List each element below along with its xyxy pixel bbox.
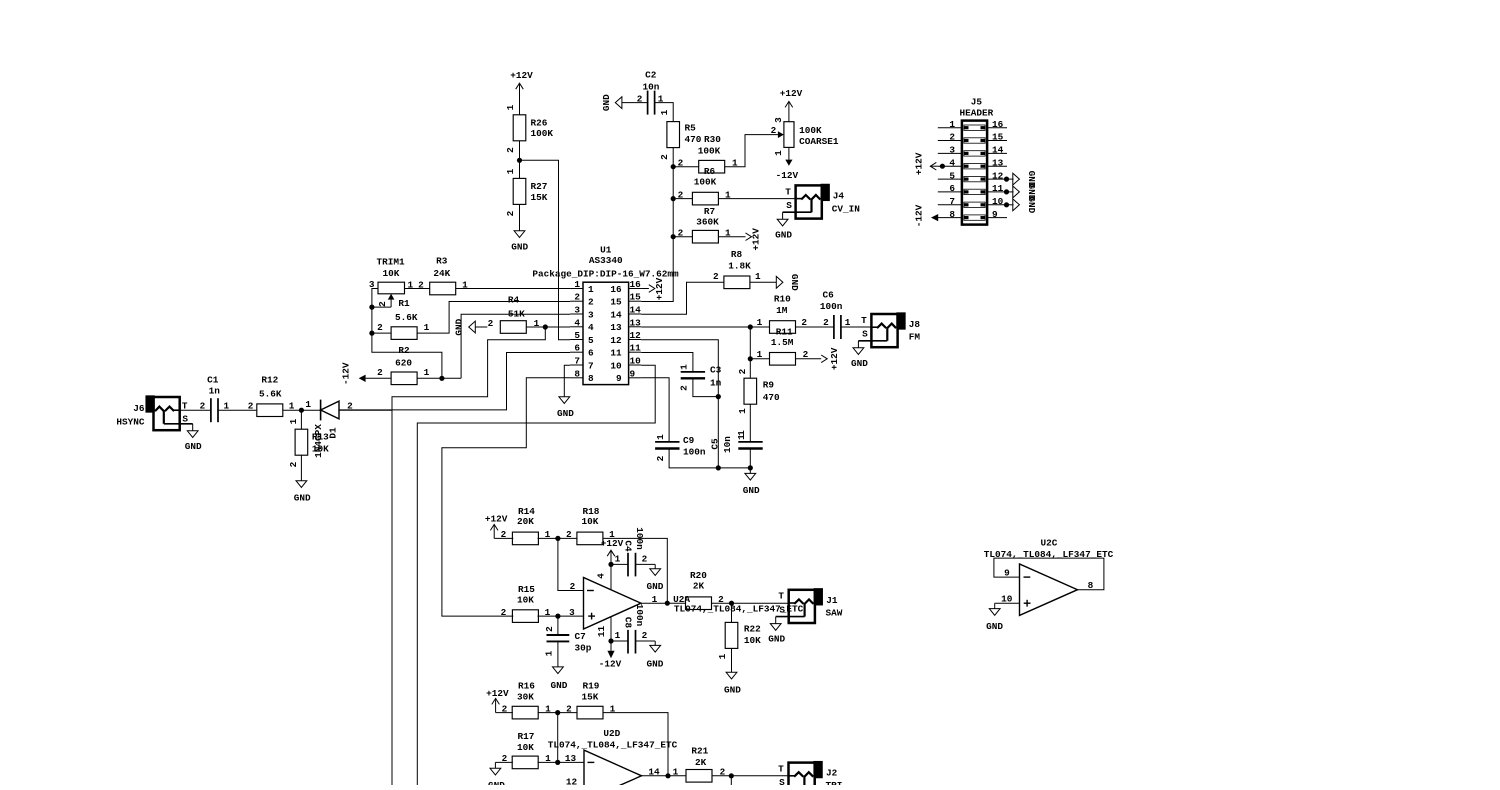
- svg-text:R21: R21: [691, 745, 708, 756]
- junction U2A output node: [665, 601, 670, 606]
- wire U2A output: [641, 594, 686, 605]
- svg-text:2: 2: [377, 367, 383, 378]
- svg-text:11: 11: [596, 626, 607, 638]
- resistor R15: [501, 584, 551, 622]
- svg-text:J2: J2: [826, 768, 838, 779]
- svg-text:TL074,_TL084,_LF347_ETC: TL074,_TL084,_LF347_ETC: [548, 740, 678, 751]
- svg-text:HEADER: HEADER: [960, 108, 994, 119]
- svg-text:GND: GND: [454, 318, 465, 335]
- svg-text:1: 1: [655, 434, 666, 440]
- svg-text:15: 15: [630, 292, 642, 303]
- svg-text:15K: 15K: [531, 192, 548, 203]
- power +12V at R16: [486, 688, 513, 714]
- connector J6 HSYNC jack: [116, 397, 202, 452]
- svg-text:GND: GND: [185, 441, 202, 452]
- svg-text:9: 9: [1004, 568, 1010, 579]
- resistor R2: [377, 345, 430, 384]
- svg-text:10: 10: [610, 360, 622, 371]
- capacitor C1: [207, 374, 229, 422]
- svg-text:5: 5: [949, 170, 955, 181]
- svg-text:10: 10: [630, 356, 642, 367]
- svg-text:1: 1: [659, 109, 670, 115]
- wire R11 pin1: [750, 358, 769, 360]
- junction C4 node: [608, 562, 613, 567]
- junction R17 node: [555, 760, 560, 765]
- wire R17 to U2D: [538, 753, 584, 764]
- resistor R10: [757, 293, 808, 333]
- wire D1 pin2: [339, 400, 392, 411]
- svg-text:6: 6: [588, 348, 594, 359]
- svg-text:10: 10: [1001, 593, 1013, 604]
- trimmer TRIM1: [369, 256, 414, 307]
- svg-text:12: 12: [566, 777, 578, 786]
- svg-text:2: 2: [637, 94, 643, 105]
- wire U1 pin11 to C3: [641, 353, 693, 372]
- svg-text:-12V: -12V: [776, 170, 799, 181]
- wire R20 to J1: [711, 602, 789, 604]
- svg-text:2: 2: [377, 322, 383, 333]
- wire U1 pin6 to D1: [339, 353, 570, 410]
- svg-text:GND: GND: [551, 680, 568, 691]
- resistor R14: [512, 506, 550, 545]
- svg-text:J4: J4: [833, 190, 845, 201]
- svg-text:2: 2: [771, 125, 777, 136]
- svg-text:2: 2: [566, 703, 572, 714]
- svg-text:R12: R12: [261, 374, 278, 385]
- svg-text:1: 1: [588, 284, 594, 295]
- svg-text:16: 16: [630, 279, 642, 290]
- wire U2C feedback loop: [994, 558, 1104, 591]
- svg-text:1.8K: 1.8K: [728, 261, 751, 272]
- svg-text:1: 1: [288, 418, 299, 424]
- svg-text:2: 2: [570, 581, 576, 592]
- wire R9 to C5: [749, 404, 751, 442]
- svg-text:9: 9: [616, 373, 622, 384]
- svg-text:1: 1: [505, 168, 516, 174]
- svg-text:R5: R5: [685, 123, 697, 134]
- wire TRIM1 pin3 route: [372, 289, 442, 379]
- power -12V below COARSE1: [776, 147, 799, 180]
- svg-text:+12V: +12V: [601, 538, 624, 549]
- svg-text:470: 470: [763, 392, 780, 403]
- svg-text:T: T: [861, 315, 867, 326]
- svg-text:2: 2: [488, 318, 494, 329]
- svg-text:1n: 1n: [710, 378, 722, 389]
- wire R6 pin2: [673, 190, 692, 201]
- svg-text:7: 7: [588, 360, 594, 371]
- svg-text:11: 11: [992, 183, 1004, 194]
- wire R10 to C6: [796, 317, 834, 328]
- resistor R21: [686, 745, 726, 782]
- svg-text:1n: 1n: [209, 385, 221, 396]
- wire R12 to D1: [283, 399, 321, 410]
- svg-text:3: 3: [773, 117, 784, 123]
- wire inverting input U2A: [558, 538, 584, 592]
- svg-text:14: 14: [610, 309, 622, 320]
- wire U1 pin12 route: [641, 340, 718, 468]
- svg-text:100n: 100n: [634, 527, 645, 550]
- svg-text:2: 2: [713, 271, 719, 282]
- svg-text:CV_IN: CV_IN: [832, 203, 861, 214]
- svg-text:10K: 10K: [383, 268, 400, 279]
- wire C6 to J8: [841, 326, 872, 328]
- svg-text:+12V: +12V: [914, 152, 925, 175]
- label R4: [508, 294, 520, 305]
- svg-text:10n: 10n: [643, 81, 660, 92]
- svg-text:R16: R16: [518, 681, 535, 692]
- wire R13 pin1: [300, 410, 302, 429]
- svg-text:5.6K: 5.6K: [395, 312, 418, 323]
- svg-text:15: 15: [992, 132, 1004, 143]
- svg-text:HSYNC: HSYNC: [116, 417, 145, 428]
- svg-text:4: 4: [949, 157, 955, 168]
- potentiometer COARSE1: [771, 117, 839, 156]
- power +12V at R14: [485, 514, 513, 541]
- resistor R7: [692, 206, 731, 243]
- global label GND at C2: [601, 94, 648, 111]
- svg-text:-12V: -12V: [914, 204, 925, 227]
- capacitor C4: [611, 527, 655, 576]
- svg-text:1: 1: [737, 408, 748, 414]
- junction C7 node: [555, 614, 560, 619]
- svg-text:16: 16: [992, 119, 1004, 130]
- wire R23 top: [730, 776, 732, 785]
- svg-text:5: 5: [588, 335, 594, 346]
- svg-text:R19: R19: [583, 681, 600, 692]
- svg-text:R26: R26: [531, 118, 548, 129]
- junction R10 node: [748, 324, 753, 329]
- svg-text:U1: U1: [600, 245, 612, 256]
- svg-text:J6: J6: [133, 403, 145, 414]
- svg-text:1.5M: 1.5M: [771, 337, 794, 348]
- power -12V at U2A pin11: [596, 617, 622, 670]
- op-amp U2C: [984, 537, 1114, 615]
- svg-text:12: 12: [630, 330, 642, 341]
- wire R21 to J2: [712, 775, 789, 777]
- svg-text:2: 2: [949, 132, 955, 143]
- ground at U1 pin7: [557, 397, 574, 419]
- svg-text:13: 13: [992, 157, 1004, 168]
- svg-text:9: 9: [992, 209, 998, 220]
- svg-text:10K: 10K: [517, 742, 534, 753]
- wire R10 pin1: [750, 326, 769, 328]
- resistor R17: [512, 731, 551, 769]
- svg-text:R9: R9: [763, 380, 775, 391]
- junction R2 node: [439, 376, 444, 381]
- svg-text:2: 2: [678, 190, 684, 201]
- junction C5 gnd node: [716, 465, 721, 470]
- svg-text:16: 16: [610, 284, 622, 295]
- svg-text:D1: D1: [328, 427, 339, 439]
- svg-text:TRI: TRI: [826, 780, 843, 785]
- svg-text:GND: GND: [488, 780, 505, 785]
- junction C8 node: [608, 638, 613, 643]
- svg-text:100K: 100K: [799, 125, 822, 136]
- global label GND at J5 pin11: [1004, 183, 1037, 200]
- svg-text:R3: R3: [436, 255, 448, 266]
- svg-text:1: 1: [574, 279, 580, 290]
- svg-text:GND: GND: [601, 94, 612, 111]
- wire R7 pin2: [673, 228, 692, 239]
- wire R30 to COARSE1 wiper: [725, 135, 778, 167]
- capacitor C2: [637, 70, 664, 115]
- ground at C5/C9 rail: [743, 449, 760, 497]
- wire C3 pin2: [693, 378, 718, 396]
- power -12V at J5 pin8: [914, 204, 939, 227]
- wire U1 pin8 route: [442, 378, 570, 616]
- resistor R6: [692, 166, 731, 205]
- wire R5 bus down to pin15: [641, 148, 673, 302]
- svg-text:15: 15: [610, 297, 622, 308]
- svg-text:1: 1: [652, 594, 658, 605]
- svg-text:100K: 100K: [531, 128, 554, 139]
- svg-text:C5: C5: [710, 438, 721, 450]
- svg-text:COARSE1: COARSE1: [799, 136, 839, 147]
- svg-text:R22: R22: [744, 623, 761, 634]
- junction R6 node: [671, 196, 676, 201]
- svg-text:R17: R17: [518, 731, 535, 742]
- power -12V left of R2: [341, 362, 392, 385]
- capacitor C9: [655, 434, 706, 462]
- svg-text:C9: C9: [683, 435, 695, 446]
- svg-text:6: 6: [574, 343, 580, 354]
- wire TRIM1 wiper to node: [372, 306, 391, 308]
- resistor R22: [717, 622, 761, 659]
- wire U1 pin13 to R10: [641, 326, 750, 328]
- junction U2D output node: [665, 773, 670, 778]
- power +12V at J5 pin4: [914, 152, 946, 175]
- capacitor C7: [543, 616, 591, 656]
- svg-text:1: 1: [673, 766, 679, 777]
- connector J5 HEADER: [938, 97, 1007, 225]
- wire R26-R27: [519, 141, 521, 179]
- svg-text:8: 8: [588, 373, 594, 384]
- wire R22 top: [731, 603, 733, 622]
- svg-text:SAW: SAW: [826, 607, 843, 618]
- junction R30 node: [671, 164, 676, 169]
- svg-text:2: 2: [574, 292, 580, 303]
- svg-text:1M: 1M: [776, 305, 788, 316]
- svg-text:2: 2: [502, 703, 508, 714]
- svg-text:2K: 2K: [693, 581, 705, 592]
- svg-text:10K: 10K: [582, 516, 599, 527]
- wire R14 to R18: [538, 529, 578, 540]
- svg-text:2K: 2K: [695, 757, 707, 768]
- svg-text:U2C: U2C: [1040, 537, 1057, 548]
- svg-text:2: 2: [501, 529, 507, 540]
- ground below R22: [724, 648, 741, 695]
- svg-text:14: 14: [648, 766, 660, 777]
- wire U2D inverting node: [557, 713, 559, 763]
- svg-text:2: 2: [288, 461, 299, 467]
- svg-text:-12V: -12V: [599, 659, 622, 670]
- svg-text:1: 1: [679, 364, 690, 370]
- power +12V above COARSE1: [780, 88, 803, 122]
- wire R19 feedback: [603, 713, 668, 776]
- svg-text:620: 620: [395, 358, 412, 369]
- capacitor C5: [710, 434, 763, 453]
- op-amp U2A: [584, 578, 804, 630]
- connector J1 SAW jack: [768, 589, 842, 644]
- svg-text:GND: GND: [557, 408, 574, 419]
- svg-text:1: 1: [615, 630, 621, 641]
- svg-text:14: 14: [992, 145, 1004, 156]
- svg-text:100n: 100n: [683, 446, 706, 457]
- svg-text:10K: 10K: [312, 443, 329, 454]
- svg-text:FM: FM: [909, 332, 921, 343]
- svg-text:GND: GND: [768, 634, 785, 645]
- svg-text:+12V: +12V: [510, 70, 533, 81]
- resistor R19: [577, 681, 616, 719]
- resistor R20: [686, 570, 725, 610]
- svg-text:GND: GND: [647, 581, 664, 592]
- svg-text:C3: C3: [710, 365, 722, 376]
- svg-text:J1: J1: [826, 595, 838, 606]
- svg-text:AS3340: AS3340: [589, 255, 623, 266]
- svg-text:GND: GND: [851, 358, 868, 369]
- svg-text:S: S: [779, 604, 785, 615]
- junction wiper node: [369, 305, 374, 310]
- junction R4 node: [543, 324, 548, 329]
- resistor R1: [377, 298, 430, 340]
- svg-text:2: 2: [502, 753, 508, 764]
- svg-text:T: T: [785, 186, 791, 197]
- svg-text:S: S: [779, 777, 785, 785]
- junction R23 node: [729, 773, 734, 778]
- resistor R16: [512, 681, 551, 719]
- wire R2 to U1 pin3: [417, 377, 442, 379]
- svg-text:1: 1: [615, 553, 621, 564]
- svg-text:8: 8: [574, 368, 580, 379]
- svg-text:GND: GND: [986, 621, 1003, 632]
- svg-text:30p: 30p: [575, 642, 592, 653]
- ground at U2C pin10: [986, 603, 1003, 632]
- svg-text:100n: 100n: [634, 604, 645, 627]
- svg-text:2: 2: [655, 455, 666, 461]
- ground at C7: [551, 641, 568, 691]
- svg-text:S: S: [182, 414, 188, 425]
- svg-text:2: 2: [588, 297, 594, 308]
- svg-text:1: 1: [717, 653, 728, 659]
- svg-text:1: 1: [424, 367, 430, 378]
- svg-text:9: 9: [630, 368, 636, 379]
- wire R1 pin1 to U1 pin2: [417, 302, 570, 334]
- svg-text:1: 1: [424, 322, 430, 333]
- svg-text:1: 1: [736, 430, 747, 436]
- resistor R26: [505, 104, 553, 153]
- svg-text:2: 2: [566, 529, 572, 540]
- junction R16/R19 node: [555, 710, 560, 715]
- power +12V (R26 top): [510, 70, 533, 115]
- wire U1 pin7 to GND: [564, 365, 570, 397]
- svg-text:J8: J8: [909, 319, 921, 330]
- capacitor C6: [820, 290, 851, 339]
- svg-text:R8: R8: [731, 249, 743, 260]
- svg-text:24K: 24K: [433, 268, 450, 279]
- svg-text:20K: 20K: [517, 516, 534, 527]
- svg-text:5: 5: [574, 330, 580, 341]
- svg-text:5.6K: 5.6K: [259, 389, 282, 400]
- resistor R5: [659, 122, 702, 160]
- wire R27-GND: [519, 204, 521, 230]
- svg-text:2: 2: [659, 154, 670, 160]
- svg-text:GND: GND: [724, 685, 741, 696]
- svg-text:GND: GND: [511, 242, 528, 253]
- wire U1 pin3 column: [461, 314, 570, 378]
- connector J2 TRI jack: [768, 762, 842, 790]
- svg-text:13: 13: [565, 753, 577, 764]
- wire R16 to R19: [538, 703, 578, 714]
- svg-text:+12V: +12V: [485, 514, 508, 525]
- connector J8 FM jack: [851, 314, 920, 369]
- svg-text:2: 2: [678, 228, 684, 239]
- ground at C8: [647, 641, 664, 670]
- svg-text:2: 2: [737, 368, 748, 374]
- resistor R3: [418, 255, 468, 294]
- svg-text:3: 3: [569, 607, 575, 618]
- svg-text:11: 11: [610, 348, 622, 359]
- wire R6 to J4: [719, 198, 796, 200]
- svg-text:1: 1: [505, 104, 516, 110]
- junction divider node: [517, 158, 522, 163]
- svg-text:J5: J5: [971, 97, 983, 108]
- resistor R12: [257, 374, 295, 416]
- power +12V at U2A pin4: [596, 538, 624, 590]
- svg-text:C7: C7: [575, 631, 586, 642]
- svg-text:2: 2: [823, 317, 829, 328]
- wire R15 to U2A: [538, 607, 584, 618]
- svg-text:T: T: [778, 591, 784, 602]
- junction R11 node: [748, 356, 753, 361]
- svg-text:1: 1: [305, 399, 311, 410]
- global label GND right of R8: [750, 274, 800, 291]
- global label GND at R4: [454, 318, 488, 335]
- svg-text:1: 1: [949, 119, 955, 130]
- svg-text:2: 2: [200, 400, 206, 411]
- svg-text:+12V: +12V: [654, 277, 665, 300]
- svg-text:U2D: U2D: [603, 728, 620, 739]
- svg-text:360K: 360K: [696, 217, 719, 228]
- wire R2 node to pin3 column: [442, 377, 461, 379]
- svg-text:2: 2: [505, 147, 516, 153]
- svg-text:10: 10: [992, 196, 1004, 207]
- svg-text:7: 7: [949, 196, 955, 207]
- svg-text:R6: R6: [704, 166, 716, 177]
- svg-text:+12V: +12V: [780, 88, 803, 99]
- svg-text:R10: R10: [774, 293, 791, 304]
- resistor R11: [757, 327, 809, 366]
- svg-text:+12V: +12V: [486, 688, 509, 699]
- ground at C4: [647, 564, 664, 592]
- wire J6 to C1: [180, 400, 211, 411]
- svg-text:12: 12: [992, 170, 1004, 181]
- svg-text:T: T: [778, 764, 784, 775]
- svg-text:R2: R2: [398, 345, 410, 356]
- svg-text:+12V: +12V: [829, 347, 840, 370]
- svg-text:2: 2: [505, 210, 516, 216]
- svg-text:8: 8: [1088, 580, 1094, 591]
- junction C3 node: [716, 394, 721, 399]
- resistor R9: [736, 378, 780, 436]
- svg-text:51K: 51K: [508, 308, 525, 319]
- resistor R18: [577, 506, 615, 545]
- svg-text:6: 6: [949, 183, 955, 194]
- svg-text:C2: C2: [645, 70, 657, 81]
- svg-text:R4: R4: [508, 294, 520, 305]
- svg-text:C6: C6: [822, 290, 834, 301]
- junction R14/R18 node: [555, 536, 560, 541]
- svg-text:3: 3: [574, 305, 580, 316]
